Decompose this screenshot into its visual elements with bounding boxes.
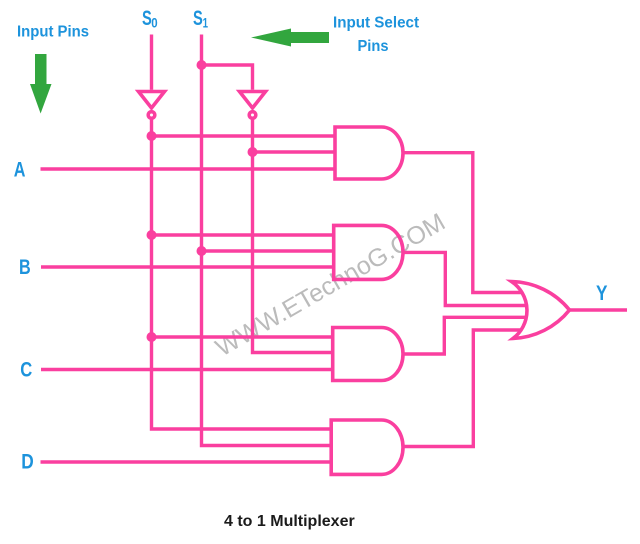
wire S0' tap to AND2 input 1 [152,233,334,236]
wire output Y [570,308,627,311]
svg-text:0: 0 [151,15,158,31]
junction S1 branch [197,60,207,70]
wire S0' vertical to AND4 input 1 [152,120,332,430]
wire S0' tap to AND1 input 1 [152,134,335,137]
wire S0 pin [150,35,153,90]
svg-text:1: 1 [203,15,209,31]
svg-text:Input Pins: Input Pins [17,24,89,41]
wire AND3 output to OR input 3 [402,317,528,354]
and-gate U4 [334,225,403,279]
svg-text:C: C [20,359,32,382]
wire S1' vertical to AND3 input 2 [253,120,333,353]
wire input A [41,167,335,170]
wire AND1 output to OR input 1 [402,153,523,293]
svg-text:A: A [14,159,26,182]
svg-text:Y: Y [596,282,608,305]
junction S0'-AND2 [147,230,157,240]
svg-text:Pins: Pins [358,38,389,55]
svg-text:S: S [193,7,203,30]
inverter U1 [139,92,165,109]
junction S0'-AND3 [147,332,157,342]
wire AND4 output to OR input 4 [402,330,522,447]
wire AND2 output to OR input 2 [402,252,528,305]
wire S1' tap to AND1 input 2 [253,150,335,153]
wire S1 tap to AND2 input 2 [202,249,334,252]
and-gate U5 [333,328,403,381]
junction S0'-AND1 [147,131,157,141]
or-gate U7 [512,282,570,339]
and-gate U6 [331,420,403,474]
svg-text:B: B [19,256,31,279]
svg-text:D: D [21,451,34,474]
and-gate U3 [335,127,403,179]
svg-text:Input Select: Input Select [333,15,420,32]
svg-text:WWW.ETechnoG.COM: WWW.ETechnoG.COM [211,208,450,362]
junction S1-AND2 [197,246,207,256]
inverter U2 [240,92,266,109]
wire S1 branch to inverter U2 [202,65,253,90]
arrow input select pins [251,29,329,47]
junction S1'-AND1 [248,147,258,157]
wire input B [41,265,334,268]
wire input D [41,460,332,463]
wire input C [41,368,333,371]
arrow input pins [30,54,52,114]
svg-text:4 to 1 Multiplexer: 4 to 1 Multiplexer [224,513,355,530]
wire S0' tap to AND3 input 1 [152,335,333,338]
wire S1 pin vertical to AND4 input 2 [202,35,332,446]
